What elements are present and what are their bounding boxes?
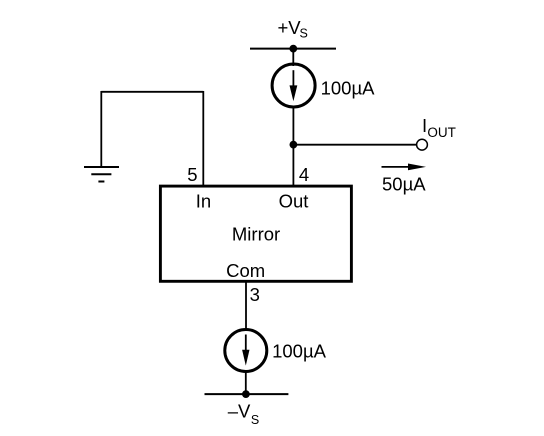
svg-text:Com: Com <box>226 260 265 281</box>
wire: down to ground <box>100 91 102 167</box>
current source I2 (bottom, 100uA) <box>225 330 267 372</box>
svg-text:In: In <box>196 190 211 211</box>
svg-text:Mirror: Mirror <box>232 224 280 245</box>
-VS supply rail bar <box>205 393 289 395</box>
wire: node A to pin 4 (Out) <box>292 145 294 186</box>
svg-text:S: S <box>251 413 259 427</box>
svg-text:+V: +V <box>278 17 302 38</box>
output terminal (open circle) <box>417 139 428 150</box>
svg-text:100µA: 100µA <box>272 341 327 362</box>
label -VS <box>228 401 260 428</box>
wire: pin 3 (Com) to current source I2 <box>245 281 247 330</box>
svg-text:5: 5 <box>187 164 197 185</box>
svg-text:S: S <box>300 27 308 41</box>
wire: +VS rail to current source I1 <box>292 49 294 66</box>
svg-text:–V: –V <box>228 401 251 422</box>
junction dot on -VS rail <box>242 390 250 398</box>
wire: ground run horizontal <box>101 91 203 93</box>
svg-text:I: I <box>422 115 427 136</box>
ground <box>84 167 119 182</box>
svg-text:4: 4 <box>299 164 309 185</box>
label +VS <box>278 17 308 41</box>
wire: node A to output terminal <box>293 144 416 146</box>
wire: ground run to pin 5 (In) <box>202 91 204 186</box>
+VS supply rail bar <box>250 48 336 50</box>
svg-text:OUT: OUT <box>427 125 456 140</box>
current direction arrow 50uA <box>382 164 427 171</box>
wire: current source I1 to node A <box>292 107 294 145</box>
svg-text:Out: Out <box>279 190 309 211</box>
svg-text:100µA: 100µA <box>321 77 376 98</box>
mirror block U1 <box>160 186 351 281</box>
svg-text:3: 3 <box>250 284 260 305</box>
current source I1 (top, 100uA) <box>272 64 315 107</box>
junction dot on +VS rail <box>289 45 297 53</box>
node A junction dot <box>290 141 298 149</box>
label IOUT <box>422 115 456 140</box>
svg-text:50µA: 50µA <box>382 173 426 194</box>
wire: current source I2 to -VS rail <box>245 372 247 395</box>
